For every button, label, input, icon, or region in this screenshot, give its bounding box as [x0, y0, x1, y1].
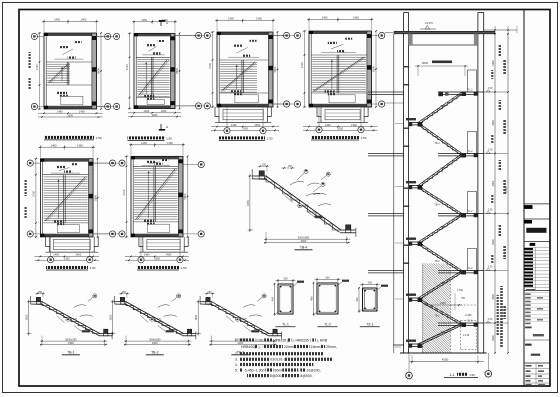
svg-text:TL-2: TL-2 — [468, 150, 474, 153]
svg-text:1-1: 1-1 — [449, 373, 454, 377]
svg-text:200: 200 — [283, 277, 288, 281]
right margin dimension line — [494, 33, 496, 353]
section cut flag above plan 2 — [159, 20, 165, 22]
svg-text:2900: 2900 — [492, 60, 495, 66]
svg-text:3000x280: 3000x280 — [149, 337, 161, 341]
svg-text:2700: 2700 — [125, 64, 129, 70]
svg-text:TZ-1: TZ-1 — [366, 322, 373, 326]
svg-text:23.970: 23.970 — [425, 21, 433, 25]
svg-text:8@500.: 8@500. — [300, 374, 312, 378]
svg-text:1460: 1460 — [166, 253, 172, 257]
svg-text:2900: 2900 — [492, 119, 495, 125]
svg-text:3300: 3300 — [242, 127, 248, 131]
svg-text:1460: 1460 — [256, 17, 262, 21]
svg-text:3300: 3300 — [337, 127, 343, 131]
svg-text:C30,: C30, — [256, 338, 263, 342]
svg-text:400: 400 — [355, 297, 359, 302]
svg-text:2700: 2700 — [32, 190, 36, 196]
title block strip — [523, 10, 525, 387]
svg-text:1:50: 1:50 — [90, 266, 96, 270]
svg-text:2900: 2900 — [492, 335, 495, 341]
svg-text:1460: 1460 — [231, 123, 237, 127]
svg-text:-5.450~1.300: -5.450~1.300 — [244, 368, 265, 372]
section base line — [400, 352, 487, 354]
revision table rows — [524, 246, 550, 248]
svg-text:1:50: 1:50 — [469, 373, 475, 377]
dashed pit outline — [461, 320, 477, 349]
svg-text:1460: 1460 — [79, 110, 85, 114]
svg-text:1:125: 1:125 — [240, 318, 247, 321]
svg-text:TB-2: TB-2 — [434, 260, 440, 263]
plan view 5 (middle row left) — [40, 159, 93, 162]
plan view 2 — [134, 33, 175, 36]
stair flight detail TB-2 — [126, 302, 184, 334]
svg-text:250: 250 — [38, 291, 43, 294]
rotated dim text left of plan 1 — [29, 52, 31, 68]
svg-text:2700: 2700 — [300, 62, 304, 68]
mid-shaft dim line — [424, 304, 462, 306]
stair flight detail TB-4 (large, centre) — [266, 176, 341, 230]
beam section TL-1 — [278, 284, 293, 314]
svg-text:5800: 5800 — [372, 66, 376, 72]
svg-text:1.300: 1.300 — [457, 289, 464, 292]
svg-text:TB-4: TB-4 — [300, 246, 307, 250]
svg-text:1460: 1460 — [75, 253, 81, 257]
svg-text:1460: 1460 — [144, 253, 150, 257]
svg-text:1650: 1650 — [109, 314, 113, 320]
svg-text:250: 250 — [208, 291, 213, 294]
svg-text:1:50: 1:50 — [181, 266, 187, 270]
svg-text:HPB235 (: HPB235 ( — [273, 338, 289, 342]
svg-text:20mm,: 20mm, — [284, 345, 295, 349]
corridor floor slabs left of shaft — [368, 91, 404, 93]
svg-text:TL-2: TL-2 — [468, 210, 474, 213]
svg-text:3300: 3300 — [152, 113, 158, 117]
grade line left of wall — [393, 344, 404, 346]
TB-4 rebar annotations — [290, 181, 304, 185]
svg-text:17400: 17400 — [505, 186, 508, 194]
columns at right wall — [468, 70, 477, 92]
section A-A left wall — [403, 13, 405, 354]
svg-text:1460: 1460 — [322, 16, 328, 20]
svg-text:1460: 1460 — [351, 123, 357, 127]
svg-text:TB-1: TB-1 — [67, 351, 74, 355]
plan view 1 (-5.45~-1.30) — [44, 33, 97, 36]
svg-text:15mm;: 15mm; — [311, 345, 322, 349]
plan view 4 (top storey) — [309, 31, 372, 34]
svg-text:2.: 2. — [235, 352, 238, 356]
drawing title text — [526, 228, 546, 233]
top right dim tie — [484, 29, 517, 31]
svg-text:1460: 1460 — [228, 17, 234, 21]
svg-text:400: 400 — [310, 296, 314, 301]
svg-text:1:125: 1:125 — [303, 205, 310, 208]
svg-text:1:50: 1:50 — [361, 136, 367, 140]
svg-text:750: 750 — [461, 297, 466, 300]
right margin rotated labels — [503, 60, 506, 74]
column section TZ-1 — [363, 288, 378, 311]
base dimension — [409, 361, 484, 363]
roof line tie to plan-4 axis bubble — [385, 32, 394, 34]
svg-text:3300: 3300 — [68, 341, 74, 345]
svg-text:TB-4: TB-4 — [440, 226, 446, 229]
title block black cells — [525, 205, 533, 209]
roof level mark — [425, 25, 430, 29]
svg-text:2900: 2900 — [492, 180, 495, 186]
stair flights zigzag — [418, 92, 462, 123]
svg-text:3300: 3300 — [67, 113, 73, 117]
svg-text:25mm,: 25mm, — [326, 345, 337, 349]
svg-text:3300: 3300 — [64, 257, 70, 261]
svg-text:1:125: 1:125 — [155, 318, 162, 321]
svg-text:-4.480: -4.480 — [464, 314, 472, 317]
rotated dim text left of plan 5 — [25, 180, 27, 196]
svg-text:10@200,: 10@200, — [306, 368, 320, 372]
extra rotated dim text right margin — [499, 45, 501, 56]
axis bubble A — [406, 372, 413, 379]
svg-text:1460: 1460 — [161, 109, 167, 113]
title block dividers — [524, 203, 550, 205]
svg-text:3300: 3300 — [154, 257, 160, 261]
plan view 3 — [217, 32, 273, 35]
svg-text:2250: 2250 — [440, 302, 446, 305]
svg-text:1460: 1460 — [51, 143, 57, 147]
svg-text:5800: 5800 — [175, 68, 179, 74]
svg-text:1.: 1. — [235, 338, 238, 342]
roof slab — [394, 31, 495, 34]
title block mid rows — [524, 292, 550, 294]
svg-text:250: 250 — [122, 291, 127, 294]
dense rotated note right margin bottom — [500, 286, 503, 348]
svg-text:HRB400(: HRB400( — [241, 345, 256, 349]
svg-text:A: A — [166, 125, 168, 129]
floor slabs right — [438, 91, 484, 93]
svg-text:3000x280: 3000x280 — [65, 337, 77, 341]
svg-text:3.30: 3.30 — [488, 208, 493, 211]
svg-text:5800: 5800 — [273, 66, 277, 72]
svg-text:TB-2: TB-2 — [151, 351, 158, 355]
svg-text:), HRB: ), HRB — [317, 338, 328, 342]
svg-text:2700: 2700 — [208, 62, 212, 68]
svg-text:3.30: 3.30 — [488, 265, 493, 268]
svg-text:03G101-1: 03G101-1 — [270, 358, 286, 362]
svg-text:1650: 1650 — [194, 314, 198, 320]
section cut flag below plan 2 — [159, 129, 165, 131]
stair flight detail TB-1 — [42, 302, 100, 334]
svg-text:3.30: 3.30 — [488, 318, 493, 321]
svg-text:3.30: 3.30 — [488, 87, 493, 90]
svg-text:400: 400 — [271, 296, 275, 301]
svg-text:1:50: 1:50 — [96, 136, 102, 140]
svg-text:200: 200 — [368, 281, 373, 285]
svg-text:1:125: 1:125 — [71, 318, 78, 321]
svg-text:5.: 5. — [235, 368, 238, 372]
svg-text:TL-1: TL-1 — [282, 322, 289, 326]
axis bubble right — [485, 371, 492, 378]
title block bottom table — [524, 368, 550, 370]
svg-text:1:4.48: 1:4.48 — [463, 335, 470, 337]
svg-text:5800: 5800 — [97, 68, 101, 74]
svg-text:3300: 3300 — [301, 239, 307, 243]
svg-text:1:50: 1:50 — [267, 137, 273, 141]
svg-text:TL-2: TL-2 — [468, 89, 474, 92]
svg-text:1460: 1460 — [141, 18, 147, 22]
svg-text:3000x280: 3000x280 — [298, 235, 310, 239]
svg-text:TB-4: TB-4 — [434, 204, 440, 207]
svg-text:2700: 2700 — [35, 64, 39, 70]
svg-text:5800: 5800 — [93, 194, 97, 200]
roof beam — [409, 44, 478, 46]
half landings left — [409, 122, 423, 124]
svg-text:1460: 1460 — [325, 123, 331, 127]
svg-text:1460: 1460 — [77, 143, 83, 147]
svg-text:4500: 4500 — [442, 358, 449, 362]
svg-text:1460: 1460 — [57, 110, 63, 114]
svg-text:3.30: 3.30 — [488, 148, 493, 151]
svg-text:TL-2: TL-2 — [468, 267, 474, 270]
svg-text:TB-4: TB-4 — [440, 168, 446, 171]
plan view 6 (middle row right) — [131, 156, 183, 159]
corridor outer wall line — [393, 34, 395, 353]
svg-text:1650: 1650 — [25, 314, 29, 320]
svg-text:1650: 1650 — [246, 200, 250, 206]
svg-text:3000: 3000 — [422, 61, 429, 65]
svg-text:250: 250 — [262, 163, 267, 166]
svg-text:1460: 1460 — [141, 141, 147, 145]
svg-text:1:50: 1:50 — [166, 137, 172, 141]
svg-text:1460: 1460 — [54, 18, 60, 22]
svg-text:TL-2: TL-2 — [468, 320, 474, 323]
svg-text:1460: 1460 — [254, 123, 260, 127]
svg-text:TB-4: TB-4 — [434, 142, 440, 145]
svg-text:),: ), — [258, 345, 260, 349]
svg-text:3300: 3300 — [152, 341, 158, 345]
storey level marks — [486, 90, 490, 92]
title block mid dashes — [525, 327, 532, 329]
svg-text:200: 200 — [325, 276, 330, 280]
svg-text:1460: 1460 — [81, 18, 87, 22]
svg-text:TB-4: TB-4 — [440, 105, 446, 108]
beam section TL-2 — [317, 283, 338, 314]
svg-text:2900: 2900 — [492, 239, 495, 245]
svg-text:1460: 1460 — [167, 141, 173, 145]
svg-text:3.: 3. — [235, 358, 238, 362]
svg-text:2900: 2900 — [492, 293, 495, 299]
svg-text:4.: 4. — [235, 363, 238, 367]
svg-text:2700: 2700 — [122, 189, 126, 195]
second right dimension line — [507, 33, 509, 353]
svg-text:1460: 1460 — [143, 109, 149, 113]
svg-text:A: A — [166, 21, 168, 25]
section A-A right wall — [477, 13, 479, 354]
svg-text:), HRB335 (: ), HRB335 ( — [292, 338, 311, 342]
stair flight detail TB-3 — [212, 302, 270, 334]
svg-text:1460: 1460 — [53, 253, 59, 257]
svg-text:5800: 5800 — [183, 193, 187, 199]
mid-left axis tie line — [385, 102, 404, 104]
svg-text:1460: 1460 — [353, 16, 359, 20]
svg-text:TL-2: TL-2 — [324, 322, 331, 326]
svg-text:8@200,: 8@200, — [270, 374, 282, 378]
